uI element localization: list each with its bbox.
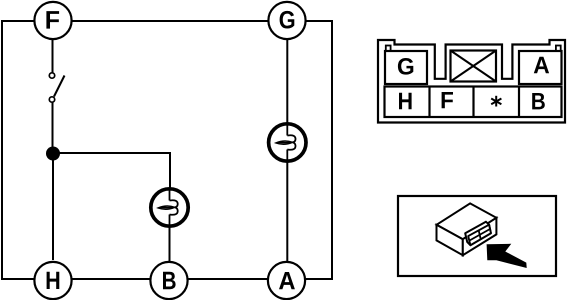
wire F to switch <box>52 40 54 73</box>
terminal H <box>34 262 71 299</box>
blocked cavity (crossed) <box>451 51 497 82</box>
lower pin row box <box>385 87 562 118</box>
junction node <box>46 147 60 161</box>
terminal G <box>268 2 305 39</box>
flasher unit connector block <box>465 222 491 246</box>
pin cavity G <box>385 51 427 84</box>
locator arrow <box>487 244 527 268</box>
connector housing outline <box>378 40 565 123</box>
wire junction to lamp L1 <box>53 153 170 190</box>
pin label A <box>534 57 549 74</box>
wire G to lamp L2 <box>286 40 288 125</box>
cavity G key notch <box>386 46 391 52</box>
pin label G <box>398 58 413 75</box>
lamp L2 <box>269 124 306 161</box>
switch S1 (open) <box>49 73 64 102</box>
pin label H <box>399 93 412 110</box>
pin label * <box>491 96 501 107</box>
lamp L1 <box>151 189 188 226</box>
pin label F <box>442 92 453 108</box>
wire right side <box>331 20 333 280</box>
terminal B <box>150 262 187 299</box>
wire lamp L2 to A <box>286 160 288 261</box>
flasher unit body <box>437 203 497 255</box>
pin cavity A <box>519 51 562 84</box>
wire top bus F-G <box>2 20 332 22</box>
terminal A <box>268 262 305 299</box>
wire junction to H <box>52 153 54 260</box>
wire left side <box>1 20 3 280</box>
pin label B <box>532 93 545 109</box>
terminal F <box>34 2 71 39</box>
wire switch to junction <box>52 103 54 155</box>
cavity A key notch <box>556 46 561 52</box>
wire bottom bus H-B-A <box>2 278 332 280</box>
component locator box <box>398 196 556 276</box>
wire lamp L1 to B <box>169 225 171 261</box>
